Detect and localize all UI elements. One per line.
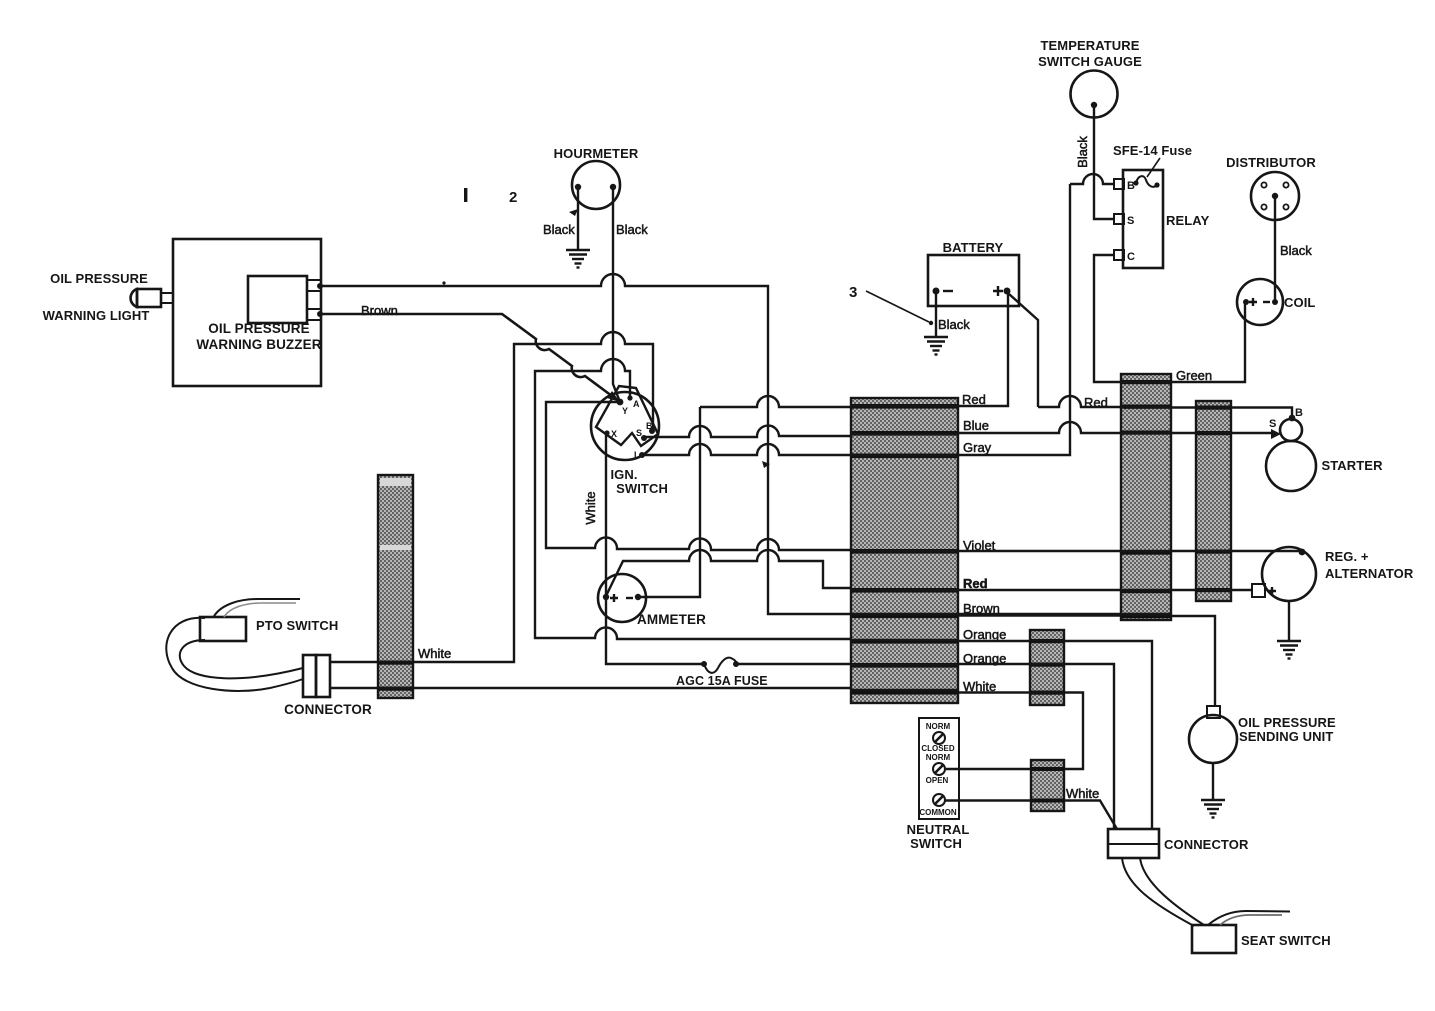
svg-text:Black: Black — [543, 222, 575, 237]
svg-text:Blue: Blue — [963, 418, 989, 433]
svg-text:SENDING UNIT: SENDING UNIT — [1239, 729, 1333, 744]
svg-text:B: B — [1295, 407, 1303, 419]
svg-text:WARNING LIGHT: WARNING LIGHT — [43, 308, 150, 323]
svg-text:Brown: Brown — [361, 303, 398, 318]
svg-text:A: A — [633, 399, 640, 409]
svg-text:2: 2 — [509, 189, 517, 206]
svg-text:OIL PRESSURE: OIL PRESSURE — [50, 271, 148, 286]
svg-text:CONNECTOR: CONNECTOR — [284, 702, 372, 717]
svg-text:3: 3 — [849, 284, 857, 301]
svg-text:BATTERY: BATTERY — [943, 240, 1004, 255]
svg-text:White: White — [583, 491, 598, 524]
svg-text:OPEN: OPEN — [926, 776, 949, 785]
svg-text:Black: Black — [616, 222, 648, 237]
svg-text:ALTERNATOR: ALTERNATOR — [1325, 566, 1414, 581]
svg-text:RELAY: RELAY — [1166, 213, 1210, 228]
svg-text:CONNECTOR: CONNECTOR — [1164, 837, 1249, 852]
svg-text:Black: Black — [938, 317, 970, 332]
svg-text:White: White — [1066, 786, 1099, 801]
svg-text:Brown: Brown — [963, 601, 1000, 616]
svg-text:NEUTRAL: NEUTRAL — [907, 822, 970, 837]
svg-text:B: B — [646, 421, 653, 431]
svg-text:SWITCH: SWITCH — [910, 836, 962, 851]
svg-text:AMMETER: AMMETER — [637, 612, 706, 627]
svg-text:SFE-14 Fuse: SFE-14 Fuse — [1113, 143, 1192, 158]
svg-text:NORM: NORM — [926, 753, 951, 762]
svg-text:COMMON: COMMON — [919, 808, 957, 817]
svg-text:Gray: Gray — [963, 440, 992, 455]
svg-text:WARNING BUZZER: WARNING BUZZER — [196, 337, 321, 352]
svg-text:Orange: Orange — [963, 627, 1006, 642]
svg-text:SWITCH GAUGE: SWITCH GAUGE — [1038, 54, 1142, 69]
svg-text:I: I — [634, 450, 637, 460]
svg-text:SEAT SWITCH: SEAT SWITCH — [1241, 933, 1331, 948]
svg-text:S: S — [1127, 215, 1134, 227]
svg-text:TEMPERATURE: TEMPERATURE — [1040, 38, 1139, 53]
svg-text:OIL PRESSURE: OIL PRESSURE — [208, 321, 309, 336]
svg-text:CLOSED: CLOSED — [921, 744, 955, 753]
svg-text:HOURMETER: HOURMETER — [554, 146, 639, 161]
svg-text:Black: Black — [1280, 243, 1312, 258]
svg-text:S: S — [1269, 418, 1276, 430]
svg-text:PTO SWITCH: PTO SWITCH — [256, 618, 338, 633]
svg-text:S: S — [636, 428, 642, 438]
svg-text:REG. +: REG. + — [1325, 549, 1369, 564]
svg-text:STARTER: STARTER — [1321, 458, 1383, 473]
svg-text:Red: Red — [1084, 395, 1108, 410]
svg-text:Red: Red — [962, 392, 986, 407]
svg-text:X: X — [611, 429, 617, 439]
svg-text:SWITCH: SWITCH — [616, 481, 668, 496]
svg-text:C: C — [1127, 251, 1135, 263]
svg-text:Green: Green — [1176, 368, 1212, 383]
svg-text:OIL PRESSURE: OIL PRESSURE — [1238, 715, 1336, 730]
svg-text:AGC 15A FUSE: AGC 15A FUSE — [676, 674, 768, 688]
svg-text:Red: Red — [963, 576, 988, 591]
svg-text:B: B — [1127, 180, 1135, 192]
svg-text:IGN.: IGN. — [610, 467, 637, 482]
svg-text:Black: Black — [1075, 136, 1090, 168]
svg-text:White: White — [963, 679, 996, 694]
svg-text:Violet: Violet — [963, 538, 996, 553]
svg-text:NORM: NORM — [926, 722, 951, 731]
svg-text:DISTRIBUTOR: DISTRIBUTOR — [1226, 155, 1316, 170]
svg-text:COIL: COIL — [1284, 295, 1315, 310]
svg-text:Orange: Orange — [963, 651, 1006, 666]
svg-text:Y: Y — [622, 406, 628, 416]
svg-text:White: White — [418, 646, 451, 661]
